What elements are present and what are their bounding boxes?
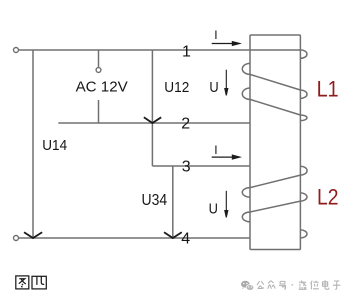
svg-text:L1: L1 <box>317 77 339 102</box>
svg-text:4: 4 <box>181 231 190 248</box>
svg-text:I: I <box>214 143 217 157</box>
svg-text:1: 1 <box>182 43 191 60</box>
svg-text:I: I <box>214 28 217 42</box>
svg-text:2: 2 <box>181 116 190 133</box>
svg-text:AC 12V: AC 12V <box>76 79 128 96</box>
svg-text:3: 3 <box>182 159 191 176</box>
svg-text:U12: U12 <box>164 79 189 96</box>
svg-text:U: U <box>209 79 218 96</box>
svg-text:U14: U14 <box>42 137 67 154</box>
svg-text:L2: L2 <box>317 185 339 210</box>
svg-text:U: U <box>209 200 218 217</box>
svg-text:U34: U34 <box>142 192 168 209</box>
